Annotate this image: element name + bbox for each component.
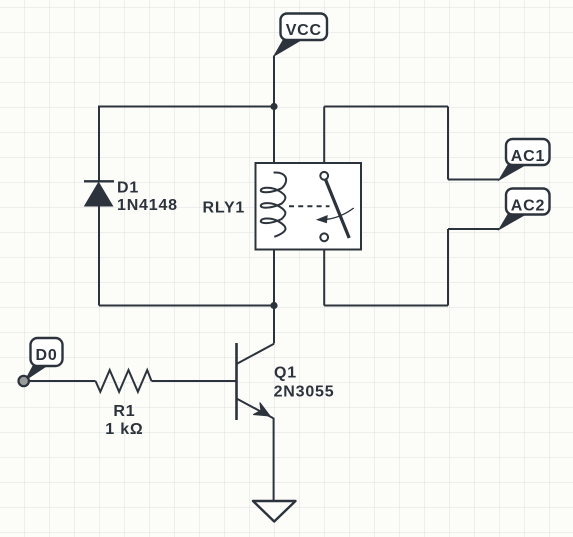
flag D0 bbox=[26, 338, 63, 380]
wire right loop bottom edge bbox=[324, 305, 448, 307]
relay switch top contact bbox=[320, 172, 328, 180]
flag AC2 bbox=[499, 189, 550, 230]
wire left edge below diode D1 bbox=[98, 206, 100, 306]
relay actuation arrow bbox=[327, 208, 354, 219]
svg-text:Q1: Q1 bbox=[274, 364, 297, 381]
emitter diagonal bbox=[237, 399, 274, 419]
svg-text:D1: D1 bbox=[117, 180, 139, 197]
svg-text:AC2: AC2 bbox=[511, 198, 545, 215]
svg-text:VCC: VCC bbox=[286, 22, 322, 39]
svg-text:1 kΩ: 1 kΩ bbox=[105, 421, 143, 438]
label D1 value bbox=[117, 180, 178, 215]
wire collector lead bbox=[273, 306, 275, 344]
relay switch bottom contact bbox=[320, 233, 328, 241]
junction dot collector node bbox=[270, 302, 277, 309]
relay dashed actuator link bbox=[289, 205, 330, 207]
svg-text:D0: D0 bbox=[35, 347, 57, 364]
wire switch bottom lead bbox=[323, 241, 325, 306]
diode D1 bbox=[84, 181, 114, 206]
wire VCC stem bbox=[273, 56, 275, 107]
transistor Q1 bbox=[237, 343, 275, 420]
relay switch blade bbox=[326, 180, 350, 239]
terminal dot D0 bbox=[19, 376, 29, 386]
junction dot VCC node bbox=[270, 103, 277, 110]
svg-text:1N4148: 1N4148 bbox=[117, 197, 178, 214]
wire D0 to resistor R1 bbox=[29, 380, 96, 382]
label Q1 value bbox=[274, 364, 335, 400]
collector diagonal bbox=[237, 344, 275, 364]
svg-text:AC1: AC1 bbox=[511, 148, 545, 165]
wire switch top lead bbox=[323, 107, 325, 173]
base bar bbox=[235, 343, 238, 420]
power flag VCC bbox=[274, 14, 327, 57]
wire resistor R1 to base bbox=[152, 380, 236, 382]
wire left edge above diode D1 bbox=[98, 106, 100, 182]
svg-text:2N3055: 2N3055 bbox=[274, 384, 335, 401]
svg-text:R1: R1 bbox=[113, 403, 135, 420]
wire coil top lead bbox=[273, 107, 275, 174]
wire emitter to ground bbox=[273, 418, 275, 500]
wire coil bottom lead bbox=[273, 236, 275, 305]
wire right loop right edge lower bbox=[447, 229, 449, 306]
svg-text:RLY1: RLY1 bbox=[203, 200, 246, 217]
wire bottom edge of flyback loop bbox=[99, 305, 274, 307]
wire right loop top edge bbox=[324, 106, 448, 108]
resistor R1 bbox=[96, 370, 152, 392]
relay RLY1 body bbox=[256, 163, 362, 250]
wire AC2 lead bbox=[448, 228, 499, 230]
wire AC1 lead bbox=[448, 179, 499, 181]
ground bbox=[253, 501, 296, 522]
wire right loop right edge upper bbox=[447, 107, 449, 180]
emitter arrow head bbox=[254, 403, 270, 416]
flag AC1 bbox=[499, 139, 550, 180]
relay coil bbox=[261, 173, 286, 237]
wire top edge of flyback loop bbox=[99, 106, 274, 108]
label R1 value bbox=[105, 403, 143, 438]
